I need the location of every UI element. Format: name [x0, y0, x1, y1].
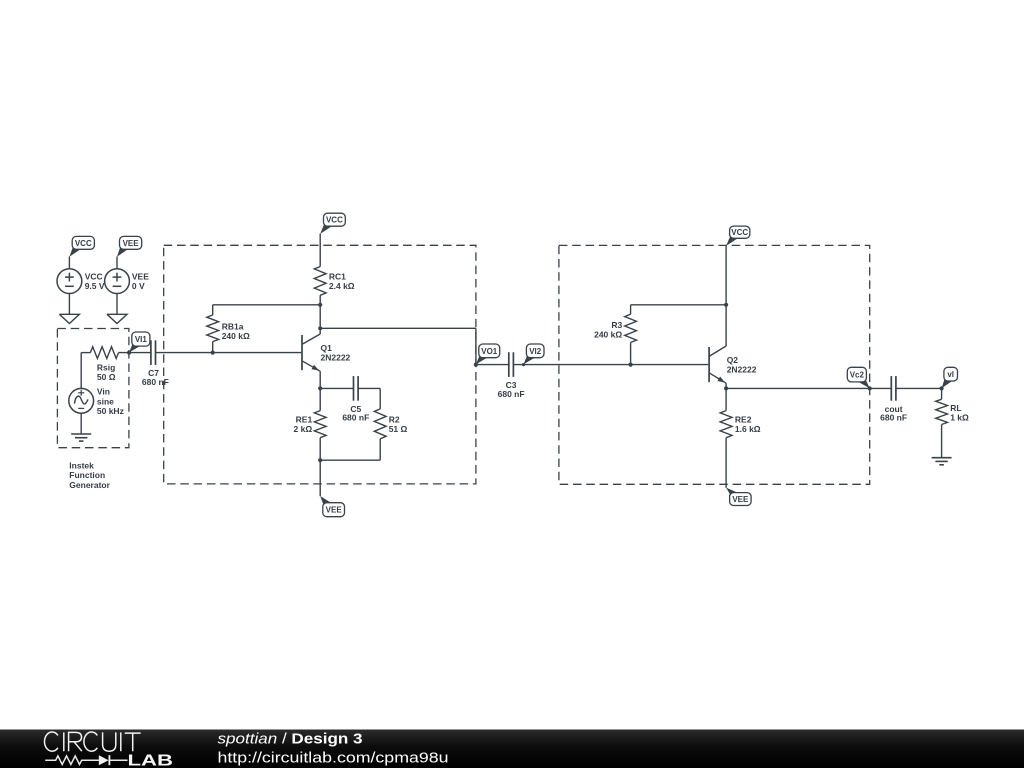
- wire VCC to RC1: [319, 234, 321, 267]
- capacitor C3 680 nF: [509, 352, 514, 377]
- svg-text:VCC: VCC: [326, 216, 343, 225]
- wire C3 to Q2 base: [513, 364, 708, 366]
- wire RB1a bottom: [212, 342, 214, 353]
- label Q2: [727, 355, 757, 375]
- wire VEE source to ground: [116, 294, 118, 315]
- wire R3 bottom: [630, 343, 632, 365]
- footer bar: [0, 730, 1024, 768]
- svg-text:0 V: 0 V: [132, 281, 145, 291]
- svg-text:50 Ω: 50 Ω: [97, 372, 116, 382]
- label RE2: [735, 415, 761, 435]
- svg-text:9.5 V: 9.5 V: [85, 281, 105, 291]
- wire collector to VO1 bend: [320, 328, 476, 364]
- svg-text:VEE: VEE: [132, 272, 149, 282]
- label C3: [498, 380, 525, 399]
- wire emitter node to RE1: [319, 388, 321, 410]
- label C7: [142, 368, 169, 387]
- voltage source Vin sine 50 kHz: [69, 388, 94, 413]
- wire C7 to Q1 base: [156, 352, 302, 354]
- ground (triangle) under VCC: [59, 314, 79, 323]
- voltage source VCC 9.5 V: [57, 269, 82, 294]
- label Vin: [97, 387, 124, 416]
- svg-text:LAB: LAB: [128, 753, 174, 768]
- CircuitLab logo LAB: [128, 753, 174, 768]
- svg-text:2.4 kΩ: 2.4 kΩ: [329, 281, 355, 291]
- svg-text:RE1: RE1: [296, 415, 313, 425]
- label RE1: [294, 415, 313, 435]
- svg-text:680 nF: 680 nF: [498, 389, 525, 399]
- svg-text:VCC: VCC: [75, 239, 92, 248]
- svg-text:RB1a: RB1a: [222, 321, 244, 331]
- wire bottom node to VEE: [319, 460, 321, 496]
- wire VO1 to C3: [476, 364, 509, 366]
- wire VEE flag to source: [116, 257, 118, 269]
- svg-text:Q1: Q1: [321, 343, 333, 353]
- wire RE1 to bottom node: [319, 438, 321, 461]
- label VCC source: [85, 272, 105, 292]
- wire Q1 emitter: [319, 371, 321, 388]
- svg-text:2N2222: 2N2222: [727, 365, 757, 375]
- svg-text:VCC: VCC: [85, 272, 103, 282]
- svg-text:VCC: VCC: [731, 228, 748, 237]
- node RE1 bottom dot: [318, 458, 322, 462]
- wire Rsig to VI1 node: [119, 352, 152, 354]
- svg-text:VI2: VI2: [529, 347, 542, 356]
- wire Q2 emitter to cout: [726, 387, 891, 389]
- wire VCC source to ground: [68, 294, 70, 315]
- voltage source VEE 0 V: [105, 269, 130, 294]
- power flag VCC (stage 1): [320, 213, 345, 234]
- power flag VCC (supply): [69, 236, 94, 256]
- svg-text:240 kΩ: 240 kΩ: [594, 330, 622, 340]
- node VI1 dot: [127, 351, 131, 355]
- dashed box: stage 1 amplifier: [164, 245, 476, 484]
- capacitor cout 680 nF: [891, 376, 896, 401]
- svg-text:R2: R2: [389, 415, 400, 425]
- node VI2 dot: [522, 363, 525, 366]
- wire RE2 to VEE: [725, 438, 727, 488]
- wire Vin top to Rsig: [81, 353, 90, 389]
- svg-text:Generator: Generator: [69, 480, 110, 490]
- svg-text:Q2: Q2: [727, 355, 739, 365]
- wire cout to vl: [896, 387, 942, 389]
- node flag VI1: [129, 332, 150, 352]
- svg-text:vl: vl: [947, 370, 954, 379]
- svg-text:680 nF: 680 nF: [142, 377, 169, 387]
- svg-text:50 kHz: 50 kHz: [97, 406, 124, 416]
- node flag Vc2: [847, 367, 869, 388]
- svg-text:VEE: VEE: [732, 495, 749, 504]
- wire C5 to R2: [358, 388, 380, 409]
- CircuitLab logo squiggle (resistor + diode): [45, 755, 127, 765]
- node VO1 dot: [474, 363, 478, 367]
- dashed box: Instek function generator: [57, 329, 128, 448]
- svg-text:sine: sine: [97, 396, 114, 406]
- power flag VEE (supply): [117, 236, 142, 256]
- svg-text:2 kΩ: 2 kΩ: [294, 424, 313, 434]
- wire vl to RL: [941, 388, 943, 399]
- node flag vl: [942, 367, 958, 388]
- svg-text:RC1: RC1: [329, 272, 346, 282]
- label RB1a: [222, 321, 250, 341]
- svg-text:VEE: VEE: [326, 506, 343, 515]
- svg-text:spottian / Design 3: spottian / Design 3: [218, 731, 363, 748]
- label R2: [389, 415, 408, 435]
- wire VCC flag to source: [68, 257, 70, 269]
- svg-text:VO1: VO1: [481, 347, 498, 356]
- svg-text:VEE: VEE: [123, 239, 140, 248]
- node vl dot: [940, 386, 944, 390]
- wire Q2 emitter: [725, 383, 727, 388]
- svg-text:R3: R3: [611, 320, 622, 330]
- ground (earth) under RL: [932, 458, 952, 465]
- label VEE source: [132, 272, 149, 292]
- svg-text:1.6 kΩ: 1.6 kΩ: [735, 424, 761, 434]
- wire VCC stage2 down: [725, 246, 727, 346]
- node Q2 emitter dot: [724, 386, 728, 390]
- svg-text:Function: Function: [69, 470, 105, 480]
- resistor RL 1k: [936, 399, 948, 424]
- node Q1 emitter dot: [318, 386, 322, 390]
- svg-text:240 kΩ: 240 kΩ: [222, 331, 250, 341]
- wire R2 bottom: [320, 439, 380, 460]
- resistor R2 51: [374, 409, 386, 439]
- svg-text:680 nF: 680 nF: [880, 413, 907, 423]
- label cout: [880, 404, 907, 423]
- power flag VEE (stage 1): [320, 496, 344, 517]
- node Vc2 dot: [868, 386, 872, 390]
- resistor RC1 2.4k: [314, 267, 326, 296]
- svg-text:2N2222: 2N2222: [321, 353, 351, 363]
- svg-text:Instek: Instek: [69, 461, 94, 471]
- wire R3 top: [631, 305, 727, 314]
- svg-text:Vc2: Vc2: [850, 371, 865, 380]
- node2 dot (collector): [318, 326, 322, 330]
- node R3 top dot: [724, 303, 728, 307]
- svg-text:VI1: VI1: [135, 335, 148, 344]
- wire emitter to C5: [320, 387, 353, 389]
- label Rsig: [97, 362, 116, 382]
- svg-text:1 kΩ: 1 kΩ: [950, 413, 969, 423]
- dashed box: stage 2 amplifier: [559, 245, 870, 484]
- capacitor C7 680 nF: [151, 340, 156, 365]
- label RL: [950, 403, 969, 423]
- label RC1: [329, 272, 355, 292]
- svg-text:51 Ω: 51 Ω: [389, 424, 408, 434]
- node flag VO1: [476, 344, 500, 364]
- node RB1a-base junction: [211, 351, 215, 355]
- footer title: spottian / Design 3: [218, 731, 363, 748]
- resistor RE1 2k: [314, 411, 326, 438]
- footer url: [218, 749, 449, 766]
- capacitor C5 680 nF: [354, 376, 359, 401]
- wire Vin to ground: [80, 413, 82, 434]
- svg-text:680 nF: 680 nF: [342, 412, 369, 422]
- node flag VI2: [524, 344, 545, 364]
- svg-text:RE2: RE2: [735, 415, 752, 425]
- node1 dot (RC1/RB1a): [318, 303, 322, 307]
- wire emitter to RE2: [725, 388, 727, 410]
- svg-text:http://circuitlab.com/cpma98u: http://circuitlab.com/cpma98u: [218, 749, 449, 766]
- wire RB1a top: [213, 305, 321, 315]
- sine wave inside Vin source: [74, 396, 88, 404]
- svg-text:Vin: Vin: [97, 387, 110, 397]
- label C5: [342, 404, 369, 423]
- power flag VCC (stage 2): [726, 226, 750, 246]
- resistor R3 240k: [625, 314, 637, 342]
- resistor Rsig 50: [90, 347, 118, 359]
- wire RC1 to node1: [319, 295, 321, 328]
- resistor RB1a 240k: [207, 315, 219, 342]
- resistor RE2 1.6k: [720, 411, 732, 438]
- ground (earth) under Vin: [71, 434, 91, 441]
- label R3: [594, 320, 622, 340]
- power flag VEE (stage 2): [726, 488, 751, 506]
- wire RL to ground: [941, 425, 943, 458]
- label Instek Function Generator: [69, 461, 110, 490]
- wire Q1 collector: [319, 328, 321, 334]
- label Q1: [321, 343, 351, 363]
- transistor Q1 2N2222: [302, 334, 320, 371]
- svg-text:RL: RL: [950, 403, 961, 413]
- ground (triangle) under VEE: [107, 314, 127, 323]
- svg-text:Rsig: Rsig: [97, 362, 115, 372]
- transistor Q2 2N2222: [709, 346, 726, 383]
- node R3 base dot: [629, 363, 633, 367]
- CircuitLab logo CIRCUIT: [44, 732, 140, 751]
